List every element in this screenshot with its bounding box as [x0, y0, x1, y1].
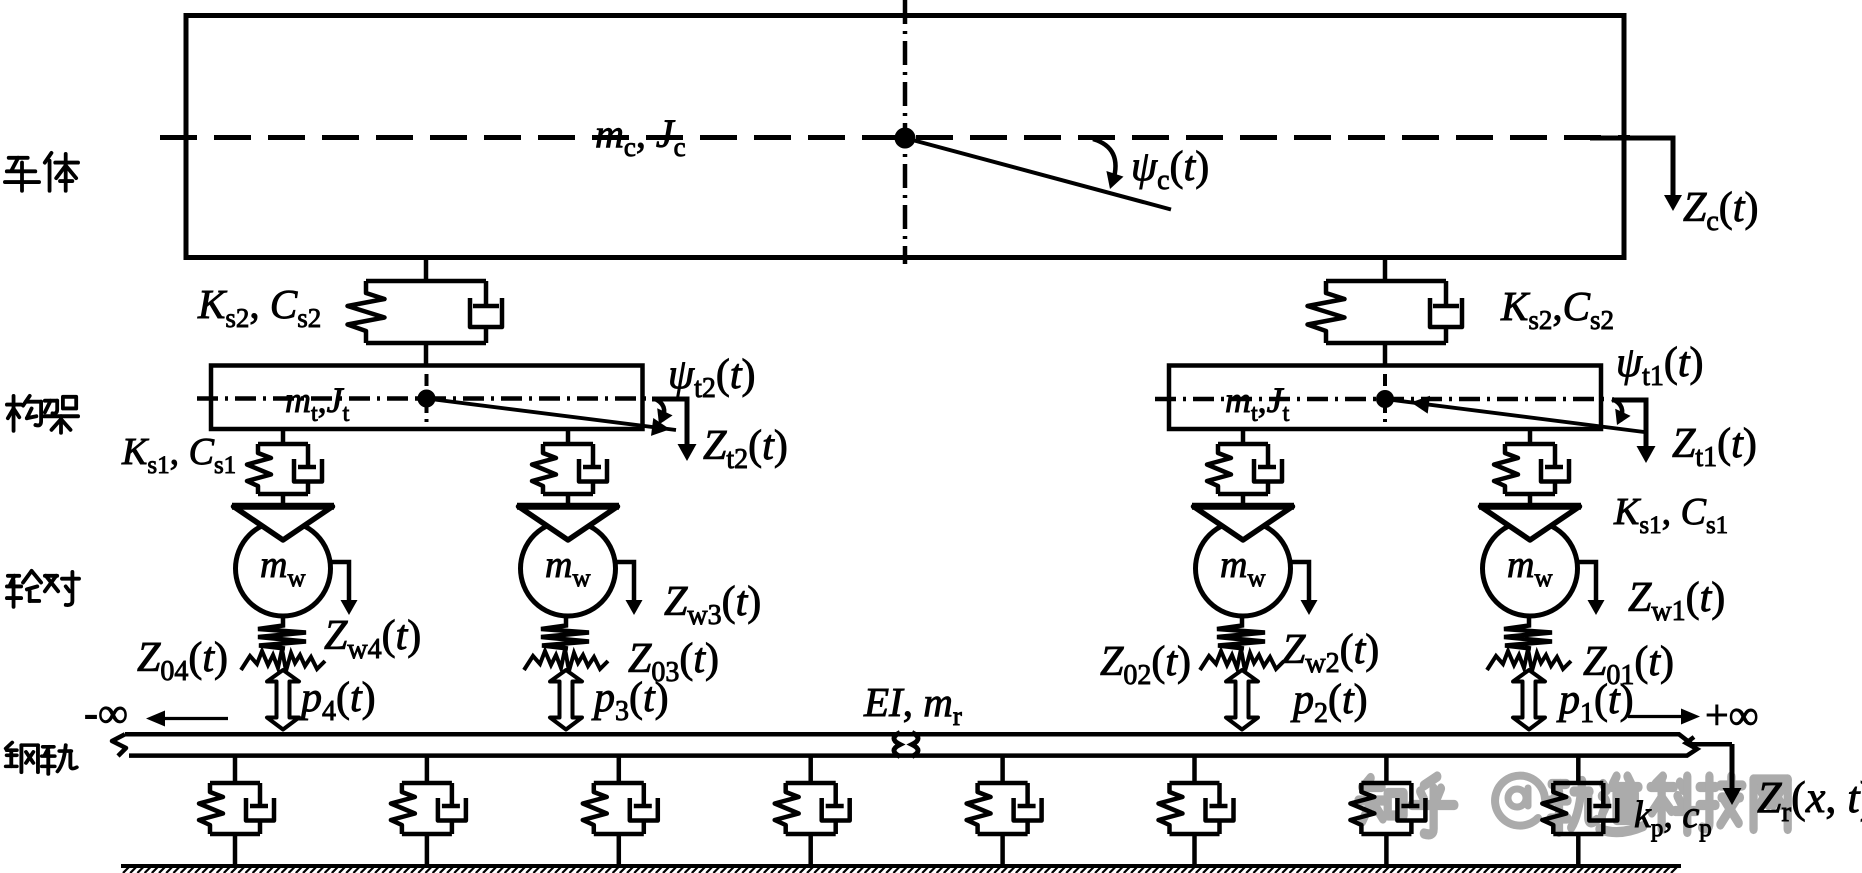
rail pad unit 2 rod to ground: [425, 834, 430, 866]
ground line: [121, 864, 1681, 868]
Zw4 displacement arrow: [329, 562, 349, 601]
rail pad kp,cp unit 8 spring-damper box: [1542, 783, 1617, 834]
car body tilted axis line: [905, 138, 1171, 210]
svg-text:Zc(t): Zc(t): [1683, 185, 1758, 237]
Zw1 displacement arrow: [1576, 562, 1596, 601]
wheelset 4 axle-box triangle: [234, 507, 333, 541]
wheelset 4 circle mw: [236, 521, 331, 616]
svg-text:-∞: -∞: [84, 691, 128, 737]
rail pad unit 3 rod to ground: [617, 834, 622, 866]
secondary suspension Ks2,Cs2 left spring-damper box: [348, 281, 503, 343]
rod primary suspension to wheel 2: [1241, 494, 1246, 504]
rail beam top line: [125, 734, 1732, 744]
primary suspension Ks1,Cs1 above wheel 2: rod: [1241, 429, 1246, 444]
rod primary suspension to wheel 4: [281, 494, 286, 504]
rod secondary left to bogie: [424, 343, 429, 366]
car body rectangle mc,Jc: [186, 16, 1624, 258]
track irregularity Z04: [241, 649, 325, 671]
svg-text:mc, Jc: mc, Jc: [595, 111, 686, 162]
Zw3 displacement arrow: [614, 562, 634, 601]
rail pad kp,cp unit 5: rod: [1000, 756, 1005, 783]
Hertz contact spring wheel 3: [541, 616, 589, 649]
Hertz contact spring wheel 2: [1217, 616, 1265, 649]
track irregularity Z03: [524, 649, 608, 671]
primary suspension Ks1,Cs1 above wheel 3: rod: [566, 429, 571, 444]
Hertz contact spring wheel 1: [1504, 616, 1552, 649]
Zt2 displacement arrow: [652, 399, 687, 444]
rail pad kp,cp unit 1 spring-damper box: [199, 783, 274, 834]
primary suspension Ks1,Cs1 above wheel 1: rod: [1528, 429, 1533, 444]
wheel-rail force p3 hollow double arrow: [550, 670, 582, 730]
rail pad kp,cp unit 4 spring-damper box: [775, 783, 850, 834]
rail pad kp,cp unit 3: rod: [617, 756, 622, 783]
primary suspension Ks1,Cs1 spring-damper box (wheel 2): [1207, 444, 1282, 494]
rail pad kp,cp unit 7: rod: [1384, 756, 1389, 783]
primary suspension Ks1,Cs1 above wheel 4: rod: [281, 429, 286, 444]
rod primary suspension to wheel 1: [1528, 494, 1533, 504]
rail displacement arrow Zr: [1730, 744, 1735, 788]
wheelset 3 circle mw: [521, 521, 616, 616]
row label 构架 (bogie frame): [7, 396, 78, 433]
car body pivot dot: [895, 128, 916, 149]
rod primary suspension to wheel 3: [566, 494, 571, 504]
track irregularity Z02: [1200, 649, 1284, 671]
rail pad unit 8 rod to ground: [1576, 834, 1581, 866]
rail cross-section break mark: [894, 733, 918, 757]
wheelset 2 circle mw: [1196, 521, 1291, 616]
bogie frame 1 (right) rectangle mt,Jt: [1169, 366, 1601, 430]
svg-text:ψc(t): ψc(t): [1131, 144, 1209, 196]
rail pad kp,cp unit 3 spring-damper box: [583, 783, 658, 834]
wheel-rail force p2 hollow double arrow: [1226, 670, 1258, 730]
watermark 知乎 @轨道科技网: [1358, 776, 1787, 835]
rail pad unit 7 rod to ground: [1384, 834, 1389, 866]
secondary suspension Ks2,Cs2 right: connecting rod: [1383, 258, 1388, 281]
rail pad unit 1 rod to ground: [233, 834, 238, 866]
wheelset 3 axle-box triangle: [519, 507, 618, 541]
row label 钢轨 (rail): [6, 743, 77, 774]
car body dashed centre line: [160, 135, 1630, 140]
Hertz contact spring wheel 4: [258, 616, 306, 649]
svg-text:p1(t): p1(t): [1556, 677, 1634, 729]
svg-text:+∞: +∞: [1705, 693, 1759, 739]
secondary suspension Ks2,Cs2 right spring-damper box: [1308, 281, 1463, 343]
svg-text:mt,Jt: mt,Jt: [285, 380, 350, 427]
wheel-rail force p4 hollow double arrow: [267, 670, 299, 730]
wheel-rail force p1 hollow double arrow: [1513, 670, 1545, 730]
car body vertical dash-dot centre line: [903, 0, 908, 264]
rail pad kp,cp unit 8: rod: [1576, 756, 1581, 783]
rod secondary right to bogie: [1383, 343, 1388, 366]
rail pad kp,cp unit 6: rod: [1192, 756, 1197, 783]
rail pad kp,cp unit 7 spring-damper box: [1350, 783, 1425, 834]
rail pad kp,cp unit 2 spring-damper box: [391, 783, 466, 834]
rail pad kp,cp unit 1: rod: [233, 756, 238, 783]
bogie frame 2 (left) rectangle mt,Jt: [211, 366, 643, 430]
plus infinity arrow: [1628, 715, 1684, 718]
rail left broken end: [112, 734, 126, 756]
wheelset 2 axle-box triangle: [1194, 507, 1293, 541]
rail pad kp,cp unit 4: rod: [808, 756, 813, 783]
track irregularity Z01: [1487, 649, 1571, 671]
svg-text:Zr(x, t): Zr(x, t): [1757, 773, 1862, 828]
row label 轮对 (wheelset): [7, 571, 79, 607]
svg-text:EI, mr: EI, mr: [863, 679, 962, 731]
primary suspension Ks1,Cs1 spring-damper box (wheel 1): [1494, 444, 1569, 494]
svg-text:mt,Jt: mt,Jt: [1225, 380, 1290, 427]
svg-text:p3(t): p3(t): [591, 675, 669, 727]
rail beam bottom line: [129, 737, 1697, 756]
minus infinity arrow: [162, 717, 228, 720]
secondary suspension Ks2,Cs2 left: connecting rod: [424, 258, 429, 281]
yaw arc psi_c with arrowhead: [1093, 139, 1116, 181]
rail pad kp,cp unit 5 spring-damper box: [967, 783, 1042, 834]
ground hatching: [123, 867, 1678, 873]
rail pad kp,cp unit 2: rod: [425, 756, 430, 783]
svg-text:p4(t): p4(t): [298, 675, 376, 727]
rail pad unit 5 rod to ground: [1000, 834, 1005, 866]
Zt1 displacement arrow: [1612, 400, 1646, 446]
primary suspension Ks1,Cs1 spring-damper box (wheel 3): [532, 444, 607, 494]
rail pad unit 6 rod to ground: [1192, 834, 1197, 866]
rail pad kp,cp unit 6 spring-damper box: [1159, 783, 1234, 834]
rail pad unit 4 rod to ground: [808, 834, 813, 866]
row label 车体 (car body): [5, 153, 78, 191]
wheelset 1 axle-box triangle: [1481, 507, 1580, 541]
wheelset 1 circle mw: [1483, 521, 1578, 616]
Zw2 displacement arrow: [1289, 562, 1309, 601]
svg-text:p2(t): p2(t): [1290, 677, 1368, 729]
primary suspension Ks1,Cs1 spring-damper box (wheel 4): [247, 444, 322, 494]
Zc displacement arrow: [1590, 138, 1673, 196]
